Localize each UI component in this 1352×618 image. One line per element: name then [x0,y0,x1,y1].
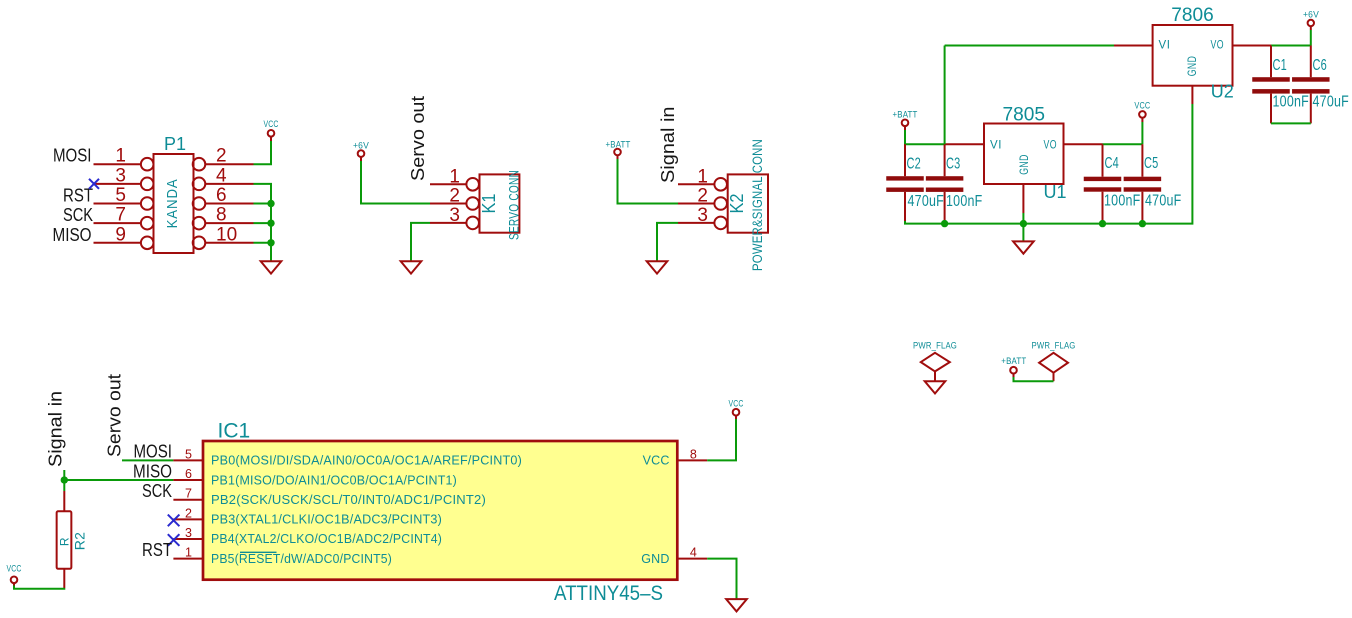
ground below U1 [1022,224,1024,242]
ground below power flag 1 [925,381,946,393]
svg-text:MOSI: MOSI [134,442,173,462]
svg-text:C3: C3 [946,156,961,173]
svg-text:VCC: VCC [264,119,279,130]
svg-text:100nF: 100nF [946,193,983,210]
svg-text:7805: 7805 [1003,103,1046,125]
IC1 pin 5 PB0 [173,459,203,461]
ground rail wire [905,104,1192,224]
wire U2 VO to +6V [1271,45,1311,47]
no-connect X on P1 pin 3 [89,179,99,189]
svg-text:C1: C1 [1273,57,1288,74]
svg-text:GND: GND [641,552,669,566]
junction [1020,220,1027,227]
svg-text:Signal in: Signal in [658,107,678,184]
connector P1 body [154,154,194,253]
capacitor C5 [1141,144,1143,177]
svg-text:SCK: SCK [63,205,93,225]
svg-text:P1: P1 [164,134,186,154]
svg-text:PB5(RESET/dW/ADC0/PCINT5): PB5(RESET/dW/ADC0/PCINT5) [211,552,392,566]
svg-text:3: 3 [697,205,708,226]
P1 pin 4 [205,183,253,185]
wire 7806 VI from battery rail [945,45,1114,47]
wire P1 pin6 [254,203,272,205]
svg-text:2: 2 [216,146,227,167]
svg-text:3: 3 [449,205,460,226]
svg-text:470uF: 470uF [908,193,945,210]
svg-text:7806: 7806 [1171,4,1214,26]
wire U1 GND to rail [1022,213,1024,224]
svg-text:GND: GND [1185,56,1199,77]
svg-text:+BATT: +BATT [1001,356,1026,367]
svg-text:SCK: SCK [142,481,172,501]
svg-text:VCC: VCC [7,563,22,574]
K1 pin 3 [430,222,466,224]
P1 pin 8 [205,222,253,224]
svg-text:4: 4 [690,546,697,560]
junction [267,200,274,207]
svg-text:VCC: VCC [1134,101,1150,112]
svg-text:RST: RST [142,540,172,560]
connector K1 body [480,174,520,232]
junction [267,219,274,226]
svg-text:PB0(MOSI/DI/SDA/AIN0/OC0A/OC1A: PB0(MOSI/DI/SDA/AIN0/OC0A/OC1A/AREF/PCIN… [211,454,522,468]
svg-text:K2: K2 [727,194,747,214]
P1 pin 1 [94,163,141,165]
svg-text:8: 8 [690,447,697,461]
svg-text:VO: VO [1211,38,1225,52]
svg-text:VI: VI [1159,38,1171,52]
svg-text:C2: C2 [907,156,922,173]
regulator U1 7805 body [984,124,1064,185]
svg-text:PWR_FLAG: PWR_FLAG [913,341,957,352]
svg-text:U2: U2 [1211,82,1234,102]
P1 pin 3 [94,183,141,185]
svg-text:9: 9 [115,224,126,245]
svg-text:IC1: IC1 [218,420,251,443]
svg-text:C4: C4 [1105,155,1120,172]
junction [1099,220,1106,227]
svg-text:K1: K1 [479,194,499,214]
K2 pin 1 [678,183,714,185]
wire U1 VO to VCC and caps [1103,143,1143,145]
svg-text:R2: R2 [72,532,88,551]
svg-text:2: 2 [185,506,192,520]
P1 pin 7 [94,222,141,224]
wire +BATT rail [905,130,945,144]
svg-text:1: 1 [115,146,126,167]
no-connect X on IC1 pin 3 [168,534,180,546]
P1 pin 5 [94,203,141,205]
wire Servo out to IC pin5 [122,459,173,461]
svg-text:6: 6 [185,467,192,481]
wire K2 pin3 to ground [657,223,678,261]
svg-text:GND: GND [1017,154,1031,175]
svg-text:KANDA: KANDA [164,178,181,228]
capacitor C4 [1102,144,1104,177]
wire P1 pin8 [254,222,272,224]
svg-text:470uF: 470uF [1313,94,1350,111]
connector K2 body [728,174,768,232]
wire P1 right bus to ground [254,184,272,261]
K1 pin 2 [430,203,466,205]
wire Signal in junction to IC pin6 [63,470,65,491]
svg-text:C6: C6 [1313,57,1328,74]
no-connect X on IC1 pin 2 [168,515,180,527]
svg-text:6: 6 [216,185,227,206]
P1 pin 2 [205,163,253,165]
svg-text:10: 10 [216,224,237,245]
svg-text:VI: VI [990,138,1002,152]
svg-text:SERVO CONN: SERVO CONN [506,170,522,240]
ground below P1 [261,261,282,273]
wire P1 pin10 [254,242,272,244]
svg-text:3: 3 [115,165,126,186]
wire C1 C6 bottom [1271,122,1311,124]
svg-text:Servo out: Servo out [408,96,428,181]
svg-text:PB3(XTAL1/CLKI/OC1B/ADC3/PCINT: PB3(XTAL1/CLKI/OC1B/ADC3/PCINT3) [211,513,442,527]
ground below K1 [401,261,422,273]
wire IC pin8 to VCC [707,419,736,460]
junction [267,239,274,246]
svg-text:7: 7 [115,205,126,226]
wire +6V to K1 pin2 [361,161,430,204]
svg-text:PB2(SCK/USCK/SCL/T0/INT0/ADC1/: PB2(SCK/USCK/SCL/T0/INT0/ADC1/PCINT2) [211,493,486,507]
IC1 pin 6 PB1 [173,479,203,481]
svg-text:100nF: 100nF [1273,94,1310,111]
regulator U2 7806 body [1153,25,1233,86]
svg-text:PB4(XTAL2/CLKO/OC1B/ADC2/PCINT: PB4(XTAL2/CLKO/OC1B/ADC2/PCINT4) [211,532,442,546]
IC1 pin 7 PB2 [173,499,203,501]
capacitor C1 [1270,46,1272,78]
IC1 pin 1 PB5 [173,558,203,560]
wire P1 pin2 to VCC [254,141,272,164]
svg-text:7: 7 [185,487,192,501]
svg-text:470uF: 470uF [1145,193,1182,210]
P1 pin 6 [205,203,253,205]
svg-text:PWR_FLAG: PWR_FLAG [1032,341,1076,352]
P1 pin 10 [205,242,253,244]
svg-text:8: 8 [216,205,227,226]
K2 pin 2 [678,203,714,205]
svg-text:1: 1 [697,166,708,187]
K1 pin 1 [430,183,466,185]
svg-text:5: 5 [115,185,126,206]
svg-text:2: 2 [449,186,460,207]
svg-text:MOSI: MOSI [53,146,92,166]
svg-text:U1: U1 [1044,182,1067,202]
ground below IC [726,599,747,611]
svg-text:3: 3 [185,526,192,540]
svg-text:MISO: MISO [133,461,172,481]
svg-text:100nF: 100nF [1104,193,1141,210]
svg-text:1: 1 [185,546,192,560]
wire +BATT to power flag 2 [1014,377,1054,381]
ground below K2 [647,261,668,273]
junction [1139,220,1146,227]
svg-text:C5: C5 [1144,155,1159,172]
svg-text:Servo out: Servo out [105,374,125,457]
junction [941,220,948,227]
junction [61,476,68,483]
svg-text:5: 5 [185,447,192,461]
capacitor C3 [944,144,946,176]
svg-text:VCC: VCC [643,454,670,468]
wire R2 to VCC [14,586,64,589]
overline on RESET [240,551,277,553]
wire C3 C4 C5 bottom stubs [944,220,946,224]
svg-text:POWER&SIGNAL CONN: POWER&SIGNAL CONN [749,139,765,271]
svg-text:1: 1 [449,166,460,187]
IC1 ATTINY45-S body [203,441,677,580]
svg-text:PB1(MISO/DO/AIN1/OC0B/OC1A/PCI: PB1(MISO/DO/AIN1/OC0B/OC1A/PCINT1) [211,473,457,487]
wire +BATT to K2 pin2 [618,159,679,204]
svg-text:4: 4 [216,165,227,186]
svg-text:2: 2 [697,186,708,207]
K2 pin 3 [678,222,714,224]
svg-text:ATTINY45–S: ATTINY45–S [554,582,663,605]
wire IC pin4 to ground [707,559,736,599]
svg-text:MISO: MISO [53,225,92,245]
svg-text:R: R [58,537,72,546]
capacitor C2 [904,144,906,176]
wire K1 pin3 to ground [411,223,430,261]
IC1 pin 3 PB4 [173,538,203,540]
IC1 pin 2 PB3 [173,518,203,520]
svg-text:Signal in: Signal in [46,391,66,467]
svg-text:VO: VO [1044,138,1058,152]
P1 pin 9 [94,242,141,244]
capacitor C6 [1310,46,1312,78]
resistor R2 [63,491,65,511]
